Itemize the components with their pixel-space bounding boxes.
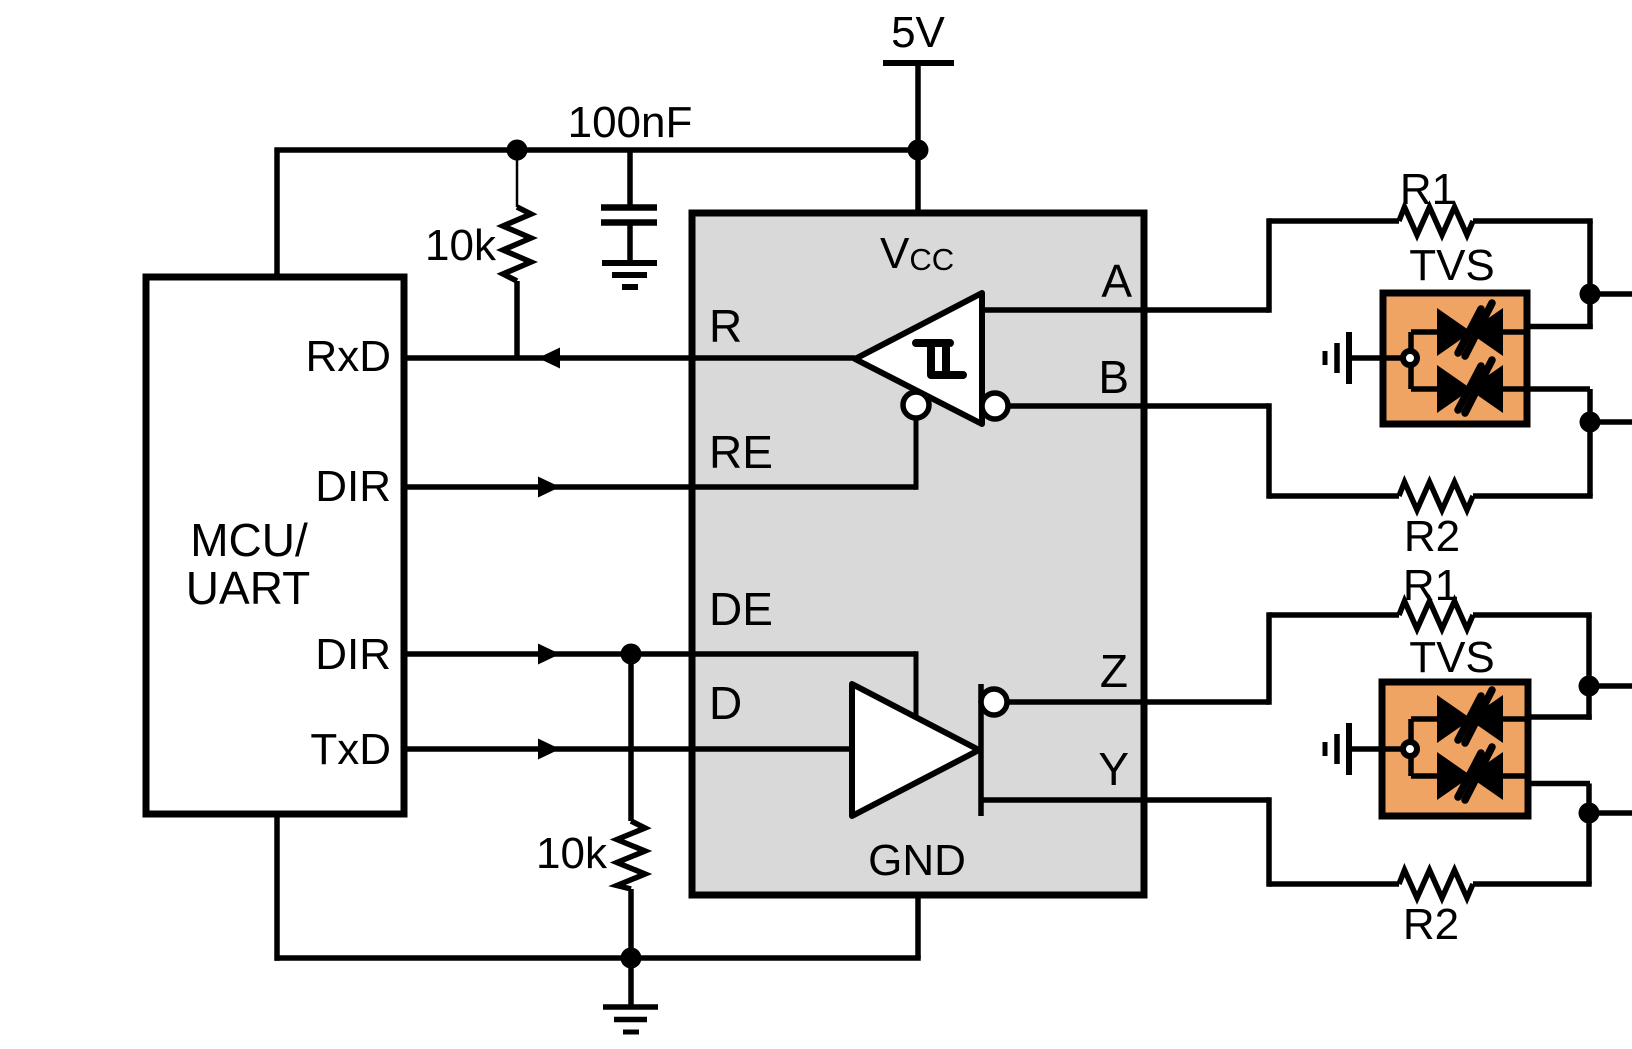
wire: GND pin to ground rail <box>915 895 921 958</box>
svg-text:TVS: TVS <box>1409 241 1495 290</box>
wire: DIR to RE pin <box>404 484 916 490</box>
TVS diode pair (lower box, bottom) <box>1437 747 1503 800</box>
capacitor C1 100nF <box>627 150 633 205</box>
svg-text:TxD: TxD <box>310 725 391 774</box>
wire: RE stem up to receiver bubble <box>914 418 919 490</box>
resistor R1 (lower) <box>1269 612 1399 618</box>
wire: Z pin <box>1007 699 1269 705</box>
svg-text:DE: DE <box>709 583 773 635</box>
wire: ground to TVS (lower) <box>1351 746 1402 752</box>
ground (lower TVS) <box>1346 723 1352 775</box>
TVS box (upper) <box>1383 293 1527 424</box>
ground (upper TVS) <box>1346 332 1352 384</box>
wire: Y down to R2 (lower) <box>1266 797 1272 887</box>
svg-text:TVS: TVS <box>1409 633 1495 682</box>
wire: 5V to VCC pin <box>915 63 921 213</box>
wire: R output to RxD <box>404 355 855 361</box>
wire: TVS upper top terminal <box>1525 324 1593 330</box>
svg-text:RE: RE <box>709 426 773 478</box>
wire: bottom ground rail <box>275 955 921 961</box>
wire: A up to R1 <box>1266 218 1272 313</box>
arrow (toward IC) <box>538 739 560 760</box>
wire: Y pin <box>981 797 1269 803</box>
wire: TVS bottom terminal down to R2 (lower) <box>1586 784 1592 885</box>
svg-text:D: D <box>709 677 742 729</box>
arrow (toward IC) <box>538 477 560 498</box>
node: bus line B <box>1580 412 1601 433</box>
svg-text:10k: 10k <box>425 221 497 270</box>
wire: DE stem down to driver <box>914 651 919 717</box>
svg-text:DIR: DIR <box>315 462 391 511</box>
svg-text:UART: UART <box>186 562 310 614</box>
wire: rail down to MCU top <box>274 148 280 278</box>
wire: R1 down to TVS top terminal <box>1587 221 1593 329</box>
resistor 10k pull-down <box>628 654 634 821</box>
svg-text:R1: R1 <box>1400 165 1456 214</box>
open terminal circle (upper TVS) <box>1403 351 1417 365</box>
wire: R1 down to TVS top terminal (lower) <box>1586 615 1592 720</box>
wire: MCU bottom to ground rail <box>274 814 280 961</box>
bubble: receiver enable <box>903 392 929 418</box>
wire: TVS lower top terminal <box>1526 714 1592 720</box>
wire: TVS lower internal top line <box>1411 716 1528 722</box>
bubble: driver Z output <box>981 689 1007 715</box>
transceiver IC U1 (gray body) <box>692 213 1144 895</box>
wire: TVS lower bottom terminal <box>1526 781 1590 787</box>
svg-text:DIR: DIR <box>315 630 391 679</box>
arrow (toward MCU) <box>538 348 560 369</box>
bubble: receiver B input <box>982 393 1008 419</box>
TVS diode pair (upper box, top) <box>1437 303 1503 356</box>
node: DIR / 10k pull-down junction <box>621 644 642 665</box>
svg-text:Z: Z <box>1100 645 1128 697</box>
wire: TVS bottom terminal down to R2 <box>1587 389 1593 496</box>
svg-text:MCU/: MCU/ <box>190 514 308 566</box>
svg-text:10k: 10k <box>536 829 608 878</box>
svg-text:100nF: 100nF <box>568 98 693 147</box>
node: bus line Y <box>1579 803 1600 824</box>
TVS diode pair (upper box, bottom) <box>1437 360 1503 413</box>
resistor R1 (upper) <box>1269 218 1399 224</box>
wire: to bus (Z) <box>1589 683 1632 689</box>
svg-text:R1: R1 <box>1403 561 1459 610</box>
svg-text:A: A <box>1101 255 1132 307</box>
wire: TVS upper internal top line <box>1411 329 1527 335</box>
MCU/UART box <box>146 277 404 814</box>
svg-text:B: B <box>1098 351 1129 403</box>
svg-text:R2: R2 <box>1403 900 1459 949</box>
ground (main) <box>628 958 634 1007</box>
open terminal circle (lower TVS) <box>1403 742 1417 756</box>
driver amplifier (points right) <box>852 684 979 816</box>
node: ground rail / 10k junction <box>621 948 642 969</box>
resistor R2 (lower) <box>1269 881 1399 887</box>
TVS diode pair (lower box, top) <box>1437 690 1503 743</box>
svg-text:Y: Y <box>1098 743 1129 795</box>
wire: TVS lower internal bottom line <box>1411 773 1528 779</box>
wire: to bus (A) <box>1590 291 1632 297</box>
wire: TVS upper internal left vertical <box>1408 332 1414 389</box>
receiver amplifier (points left) <box>855 293 982 424</box>
svg-text:R2: R2 <box>1404 512 1460 561</box>
wire: top supply rail <box>275 147 919 153</box>
wire: ground to TVS (upper) <box>1351 355 1402 361</box>
wire: TxD to D pin <box>404 746 852 752</box>
wire: TVS lower internal left vertical <box>1408 719 1414 776</box>
wire: to bus (B) <box>1590 419 1632 425</box>
wire: B pin <box>1008 403 1269 409</box>
wire: TVS upper internal bottom line <box>1411 386 1590 392</box>
node: rail / VCC junction <box>908 140 929 161</box>
wire: A pin <box>982 307 1269 313</box>
wire: to bus (Y) <box>1589 810 1632 816</box>
node: bus line A <box>1580 284 1601 305</box>
wire: B down to R2 <box>1266 403 1272 499</box>
node: rail / 10k pull-up junction <box>507 140 528 161</box>
node: bus line Z <box>1579 676 1600 697</box>
TVS box (lower) <box>1382 682 1528 816</box>
hysteresis symbol <box>916 343 963 375</box>
power symbol 5V <box>883 60 954 66</box>
wire: Z up to R1 (lower) <box>1266 612 1272 705</box>
arrow (toward IC) <box>538 644 560 665</box>
svg-text:R: R <box>709 300 742 352</box>
svg-text:GND: GND <box>868 836 966 885</box>
wire: DIR to DE pin <box>404 651 916 657</box>
resistor R2 (upper) <box>1269 493 1399 499</box>
driver output bar <box>978 684 984 816</box>
svg-text:RxD: RxD <box>305 332 391 381</box>
ground (capacitor) <box>602 260 657 266</box>
svg-text:5V: 5V <box>891 8 945 57</box>
resistor 10k pull-up <box>516 150 519 207</box>
